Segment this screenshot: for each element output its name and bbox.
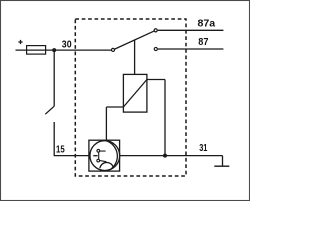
wire: battery to terminal 30 and switch pivot xyxy=(16,49,114,51)
ignition switch S1 (open) xyxy=(45,106,54,114)
svg-text:15: 15 xyxy=(56,145,65,156)
svg-text:31: 31 xyxy=(199,143,207,154)
flasher contact link xyxy=(98,152,100,160)
node: ground rail junction xyxy=(163,154,167,158)
flasher resistor bottom arc xyxy=(100,162,113,168)
page border frame xyxy=(1,1,250,201)
svg-text:87: 87 xyxy=(198,37,208,48)
contact 87a xyxy=(154,29,157,32)
flasher adjuster tick xyxy=(93,155,97,157)
pivot contact terminal 30 xyxy=(111,48,114,51)
ground drop wire xyxy=(222,156,224,167)
contact 87 xyxy=(154,47,157,50)
flasher hot-wire right arc xyxy=(106,141,117,169)
ground symbol terminal 31 xyxy=(214,165,229,167)
flasher upper contact xyxy=(97,149,100,152)
flasher unit circle xyxy=(90,141,120,171)
flasher lower contact lead xyxy=(100,161,106,162)
flasher lower contact xyxy=(97,159,100,162)
svg-text:87a: 87a xyxy=(198,18,216,29)
svg-text:30: 30 xyxy=(62,40,72,51)
flasher upper contact lead xyxy=(100,150,106,152)
flasher unit square xyxy=(89,140,120,171)
relay coil K1 xyxy=(123,74,146,112)
relay switch arm (armature contact 30 to 87a) xyxy=(113,30,156,50)
wire: contact 87 out xyxy=(158,48,224,50)
wire: armature link down to coil top xyxy=(134,40,136,74)
wire: flasher right side to ground rail xyxy=(120,155,223,157)
wire: junction down to ignition switch xyxy=(53,50,55,106)
fuse F1 xyxy=(27,46,46,55)
wire: switch to terminal 15 xyxy=(54,122,89,156)
wire: coil left terminal to flasher top xyxy=(106,107,123,141)
relay housing (dashed box) xyxy=(75,19,186,176)
wire: coil right terminal to ground rail xyxy=(147,80,165,156)
node: junction at terminal 30 feed xyxy=(52,48,56,52)
wire: contact 87a out xyxy=(158,29,224,31)
coil winding diagonal xyxy=(123,80,146,108)
battery plus sign xyxy=(18,40,22,44)
